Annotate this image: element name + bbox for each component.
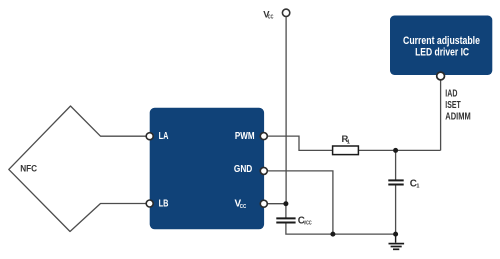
pin VCC xyxy=(260,200,267,207)
svg-text:1: 1 xyxy=(416,183,419,189)
ground xyxy=(389,234,405,249)
junction node Vcc/Cvcc xyxy=(283,201,288,206)
junction node R1/C1 xyxy=(393,148,398,153)
wire C1 bottom xyxy=(395,185,397,234)
wire GND to bottom rail xyxy=(264,171,333,234)
svg-text:PWM: PWM xyxy=(235,131,255,142)
LED driver IC box xyxy=(390,16,492,76)
wire Vcc supply vertical xyxy=(285,17,287,204)
pin LA xyxy=(146,133,153,140)
capacitor CVCC xyxy=(276,218,295,222)
pin PWM xyxy=(260,133,267,140)
svg-text:ADIMM: ADIMM xyxy=(445,111,470,122)
wire PWM to R1 xyxy=(264,136,333,150)
capacitor C1 xyxy=(388,180,403,184)
svg-text:1: 1 xyxy=(347,140,350,146)
svg-text:NFC: NFC xyxy=(20,164,37,175)
wire Vcc pin to junction xyxy=(264,203,286,205)
svg-text:LED driver IC: LED driver IC xyxy=(415,47,469,59)
svg-text:LA: LA xyxy=(159,131,169,142)
LED driver terminal xyxy=(437,72,445,80)
wire Cvcc top xyxy=(285,204,287,218)
NFC antenna loop xyxy=(9,106,150,232)
pin GND xyxy=(260,167,267,174)
junction node C1 rail xyxy=(393,232,398,237)
junction node GND rail xyxy=(330,232,335,237)
wire LED driver down xyxy=(440,80,442,150)
svg-text:GND: GND xyxy=(234,164,252,175)
wire Cvcc to bottom rail xyxy=(286,223,396,234)
wire R1 to LED driver node xyxy=(358,149,440,151)
svg-text:VCC: VCC xyxy=(304,221,312,227)
main IC box xyxy=(150,108,264,230)
pin LB xyxy=(146,200,153,207)
resistor R1 xyxy=(333,146,359,155)
svg-text:ISET: ISET xyxy=(445,100,460,111)
svg-text:LB: LB xyxy=(159,198,169,209)
Vcc supply terminal xyxy=(282,9,289,16)
svg-text:CC: CC xyxy=(268,14,274,20)
svg-text:Current adjustable: Current adjustable xyxy=(403,35,480,47)
svg-text:CC: CC xyxy=(240,204,247,210)
wire C1 top xyxy=(395,150,397,179)
svg-text:IAD: IAD xyxy=(445,88,457,99)
